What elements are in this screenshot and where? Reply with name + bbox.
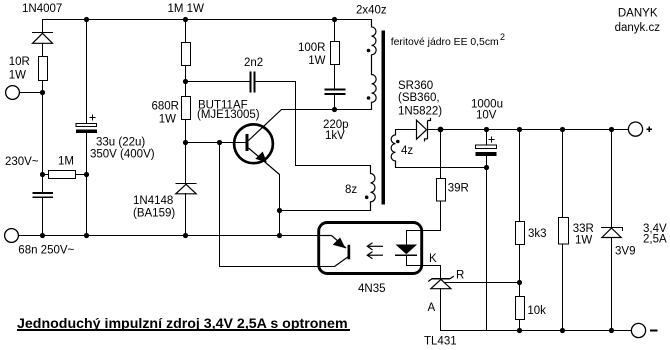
svg-text:1W: 1W bbox=[308, 55, 325, 67]
resistor 3k3 bbox=[516, 222, 525, 245]
node: rail/1M1W bbox=[183, 17, 188, 22]
node: 33R top bbox=[560, 127, 565, 132]
opto LED triangle bbox=[396, 245, 418, 255]
wire: opto emitter wire bbox=[220, 266, 335, 268]
opto phototransistor emitter diagonal bbox=[335, 257, 348, 267]
node: 1M left bbox=[40, 172, 45, 177]
diode D1 1N4007 bbox=[32, 33, 53, 44]
capacitor 220p bbox=[325, 90, 346, 95]
capacitor 1000u electrolytic bbox=[476, 137, 497, 157]
wire: 8z bottom horizontal bbox=[280, 210, 371, 212]
node: bottom rail/1N4148 bbox=[183, 233, 188, 238]
wire: 33R to bottom rail bbox=[562, 244, 564, 331]
wire: node to 39R bbox=[440, 130, 442, 179]
svg-text:350V (400V): 350V (400V) bbox=[90, 148, 155, 160]
node: base junction bbox=[183, 140, 188, 145]
svg-text:TL431: TL431 bbox=[424, 335, 457, 347]
label: output minus sign bbox=[650, 330, 658, 332]
node: 1000u plus bbox=[484, 127, 489, 132]
transformer core bbox=[382, 31, 385, 205]
svg-text:feritové jádro EE 0,5cm: feritové jádro EE 0,5cm bbox=[391, 37, 499, 48]
svg-text:33R: 33R bbox=[573, 223, 594, 235]
svg-text:R: R bbox=[456, 270, 464, 282]
wire: secondary top rail bbox=[441, 129, 629, 131]
capacitor 2n2 bbox=[251, 72, 255, 93]
node: R divider bbox=[517, 280, 522, 285]
terminal: output minus bbox=[631, 323, 645, 337]
svg-text:K: K bbox=[429, 253, 437, 265]
wire: rail to 33R bbox=[562, 130, 564, 218]
node: rectifier output bbox=[438, 127, 444, 133]
svg-text:1W: 1W bbox=[9, 70, 26, 82]
resistor 10k bbox=[516, 297, 525, 320]
svg-text:1N4148: 1N4148 bbox=[133, 195, 173, 207]
wire: 3k3 to divider node bbox=[519, 245, 521, 297]
transistor Q1 BUT11AF bbox=[234, 124, 273, 163]
phase dot 4z bbox=[396, 140, 400, 144]
svg-text:39R: 39R bbox=[448, 183, 469, 195]
node: 1M right bbox=[84, 172, 89, 177]
svg-text:2: 2 bbox=[500, 32, 505, 42]
wire: SR360 cathode to node bbox=[429, 129, 441, 131]
wire: collector horizontal bbox=[282, 109, 372, 111]
resistor 1M horizontal bbox=[49, 171, 76, 179]
wire: 1000u bottom lead bbox=[486, 157, 488, 168]
diode D2 1N4148 bbox=[176, 184, 197, 194]
resistor 100R 1W bbox=[331, 42, 340, 65]
wire: 1M right lead bbox=[76, 174, 87, 176]
svg-text:10V: 10V bbox=[476, 110, 497, 122]
node: rail/33u bbox=[84, 17, 89, 22]
wire: 1M left lead bbox=[43, 174, 49, 176]
svg-text:8z: 8z bbox=[345, 184, 357, 196]
zener diode 3V9 bbox=[601, 227, 622, 237]
svg-text:10k: 10k bbox=[527, 305, 546, 317]
wire: 33u top lead bbox=[86, 20, 88, 124]
phase dot primary lower bbox=[367, 96, 371, 100]
svg-text:1N4007: 1N4007 bbox=[22, 3, 62, 15]
terminal: mains input bottom bbox=[5, 229, 19, 243]
wire: 8z top horizontal bbox=[296, 165, 371, 167]
transistor Q1 base bar bbox=[246, 134, 249, 151]
svg-text:3V9: 3V9 bbox=[615, 246, 635, 258]
wire: 1000u top lead bbox=[486, 130, 488, 146]
transformer primary winding 2x40z bbox=[372, 20, 377, 110]
wire: 4z top lead bbox=[396, 129, 417, 131]
wire: primary top rail bbox=[43, 19, 372, 21]
svg-text:2n2: 2n2 bbox=[244, 57, 263, 69]
wire: 10k to bottom rail bbox=[519, 320, 521, 331]
label: output plus sign bbox=[647, 127, 653, 133]
node: 33R bottom bbox=[560, 328, 565, 333]
wire: rail to 100R bbox=[334, 20, 336, 42]
wire: 33u bottom lead to rail bbox=[86, 134, 88, 236]
resistor 10R 1W bbox=[39, 57, 48, 81]
node: 3V9 top bbox=[609, 127, 614, 132]
svg-text:1W: 1W bbox=[575, 234, 592, 246]
wire: 39R to opto LED anode bbox=[407, 201, 441, 245]
svg-text:680R: 680R bbox=[152, 101, 180, 113]
wire: 68n to bottom rail bbox=[42, 198, 44, 236]
wire: LED cathode to TL431 K bbox=[407, 256, 441, 279]
transistor Q1 collector diagonal bbox=[249, 110, 282, 141]
resistor 680R 1W bbox=[182, 97, 191, 120]
node: base drive tap bbox=[217, 140, 222, 145]
optocoupler 4N35 body bbox=[319, 223, 422, 274]
svg-text:1M 1W: 1M 1W bbox=[168, 3, 205, 15]
terminal: output plus bbox=[628, 122, 642, 136]
svg-text:4N35: 4N35 bbox=[358, 283, 386, 295]
opto light arrow lower bbox=[367, 252, 383, 259]
wire: negative vertical to bottom rail bbox=[486, 168, 488, 331]
wire: 1N4007 to 10R bbox=[42, 44, 44, 57]
opto phototransistor collector diagonal bbox=[332, 236, 347, 249]
wire: 1N4148 to bottom rail bbox=[185, 194, 187, 236]
wire: rail to 3k3 bbox=[519, 130, 521, 222]
svg-text:danyk.cz: danyk.cz bbox=[615, 22, 661, 34]
wire: 100R to 220p bbox=[334, 65, 336, 90]
node: bottom rail/input bbox=[40, 233, 45, 238]
svg-text:1W: 1W bbox=[159, 114, 176, 126]
wire: 2n2 left lead bbox=[186, 81, 251, 83]
transistor Q1 emitter diagonal bbox=[249, 148, 280, 175]
terminal: mains input top bbox=[6, 86, 20, 100]
svg-text:230V~: 230V~ bbox=[5, 156, 39, 168]
node: 1000u minus bbox=[484, 165, 489, 170]
node: 3k3 top bbox=[517, 127, 522, 132]
node: emitter/8z bbox=[277, 208, 282, 213]
svg-text:1kV: 1kV bbox=[325, 130, 345, 142]
svg-text:(BA159): (BA159) bbox=[133, 207, 175, 219]
transistor Q1 emitter arrow bbox=[255, 152, 266, 163]
transformer winding 8z bbox=[371, 166, 376, 211]
phase dot primary upper bbox=[367, 49, 371, 53]
capacitor 68n bbox=[33, 193, 54, 197]
wire: base drive vertical bbox=[219, 143, 221, 267]
node: 3V9 bottom bbox=[609, 328, 614, 333]
wire: live terminal to 10R chain bbox=[20, 92, 43, 94]
wire: 4z bottom lead bbox=[396, 167, 487, 169]
svg-text:1M: 1M bbox=[58, 156, 74, 168]
wire: 680R to base node bbox=[185, 120, 187, 184]
node: 10k bottom bbox=[517, 328, 522, 333]
opto phototransistor base bar bbox=[348, 245, 351, 259]
svg-text:SR360: SR360 bbox=[398, 80, 433, 92]
svg-text:100R: 100R bbox=[298, 42, 326, 54]
capacitor 33u electrolytic bbox=[76, 115, 97, 134]
wire: secondary bottom rail bbox=[441, 330, 632, 332]
wire: TL431 anode bbox=[440, 289, 442, 331]
wire: base wire bbox=[186, 142, 246, 144]
node: bottom rail/33u bbox=[84, 233, 89, 238]
wire: rail to 3V9 bbox=[611, 130, 613, 228]
resistor 1M 1W bbox=[182, 43, 191, 66]
wire: 1M1W to 680R bbox=[185, 66, 187, 97]
wire: 10R down through live node to 68n bbox=[42, 81, 44, 193]
resistor 33R 1W bbox=[559, 218, 569, 245]
svg-text:A: A bbox=[428, 302, 436, 314]
node: rail/100R bbox=[332, 17, 337, 22]
svg-text:1N5822): 1N5822) bbox=[398, 106, 442, 118]
wire: rail to 1M1W resistor bbox=[185, 20, 187, 43]
wire: 1N4007 top lead bbox=[42, 20, 44, 33]
phase dot 8z bbox=[365, 196, 369, 200]
opto phototransistor collector lead bbox=[319, 235, 332, 237]
svg-text:4z: 4z bbox=[401, 145, 413, 157]
node: emitter/rail bbox=[277, 233, 282, 238]
node: collector/220p bbox=[332, 107, 337, 112]
wire: TL431 R wire bbox=[445, 282, 520, 284]
transformer secondary winding 4z bbox=[391, 130, 395, 168]
resistor 39R bbox=[437, 179, 446, 202]
opto phototransistor collector arrow bbox=[333, 238, 346, 249]
shunt regulator U2 TL431 bbox=[428, 276, 454, 289]
svg-text:68n 250V~: 68n 250V~ bbox=[18, 245, 74, 257]
opto LED cathode bar bbox=[395, 254, 417, 256]
svg-text:3k3: 3k3 bbox=[528, 228, 547, 240]
diode D3 SR360 schottky bbox=[417, 118, 431, 142]
svg-text:(SB360,: (SB360, bbox=[398, 92, 440, 104]
node: live/10R bbox=[40, 90, 45, 95]
svg-text:(MJE13005): (MJE13005) bbox=[197, 109, 260, 121]
svg-text:2x40z: 2x40z bbox=[356, 5, 387, 17]
wire: emitter vertical bbox=[279, 175, 281, 236]
svg-text:10R: 10R bbox=[9, 56, 30, 68]
wire: 220p to collector node bbox=[334, 95, 336, 110]
svg-text:DANYK: DANYK bbox=[618, 8, 658, 20]
svg-text:2,5A: 2,5A bbox=[643, 234, 667, 246]
wire: primary bottom rail bbox=[19, 235, 318, 237]
opto light arrow upper bbox=[367, 243, 383, 250]
wire: 3V9 to bottom rail bbox=[611, 238, 613, 331]
node: 680R/2n2 bbox=[183, 79, 188, 84]
svg-text:33u (22u): 33u (22u) bbox=[96, 137, 145, 149]
wire: 2n2 right lead to 8z top bbox=[255, 82, 296, 166]
